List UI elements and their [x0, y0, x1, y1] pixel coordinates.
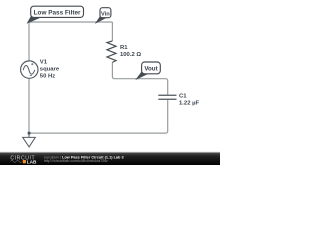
- svg-text:square: square: [40, 66, 60, 72]
- svg-text:http://circuitlab.com/c/8h4mk4: http://circuitlab.com/c/8h4mk4za75w: [44, 158, 108, 163]
- wire left vertical lower (V1 bottom to ground junction): [28, 78, 30, 133]
- svg-text:V1: V1: [40, 59, 48, 65]
- svg-text:100.2 Ω: 100.2 Ω: [120, 52, 141, 58]
- svg-text:Low Pass Filter: Low Pass Filter: [34, 9, 81, 16]
- ground: [23, 133, 36, 147]
- R1 value label: [120, 45, 141, 58]
- svg-text:LAB: LAB: [27, 159, 37, 164]
- CircuitLab logo: [10, 155, 37, 164]
- footer bar: [0, 152, 220, 153]
- C1 value label: [179, 93, 199, 106]
- resistor R1: [107, 41, 116, 63]
- wire left vertical upper (to V1 top): [28, 22, 30, 61]
- capacitor C1: [158, 95, 176, 99]
- svg-text:Vin: Vin: [101, 11, 110, 17]
- wire Vin branch down to R1: [111, 22, 113, 41]
- voltage source V1: [21, 61, 38, 78]
- wire R1 bottom to Vout corner to C1 top: [112, 62, 167, 94]
- wire C1 bottom to bottom rail: [29, 100, 168, 133]
- svg-text:R1: R1: [120, 45, 128, 51]
- svg-text:C1: C1: [179, 93, 187, 99]
- V1 value label: [40, 59, 60, 79]
- svg-text:1.22 µF: 1.22 µF: [179, 100, 199, 106]
- wire top horizontal Vin net: [29, 21, 112, 23]
- svg-text:Vout: Vout: [144, 66, 157, 73]
- node flag Vin: [95, 8, 111, 24]
- node flag Low Pass Filter: [27, 6, 84, 24]
- node flag Vout: [135, 62, 160, 80]
- svg-text:50 Hz: 50 Hz: [40, 73, 55, 79]
- junction dot ground node: [28, 132, 31, 135]
